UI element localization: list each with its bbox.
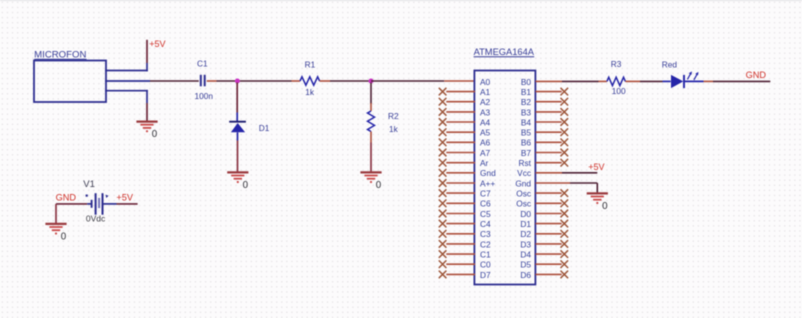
U1 right pin D2 no-connect x (row 15): [561, 230, 569, 238]
svg-text:0: 0: [376, 180, 382, 191]
U1 right pin B7 no-connect x (row 7): [561, 149, 569, 157]
U1 left pin A1 no-connect x: [439, 88, 447, 96]
U1 right pin D2 stub (row 15): [536, 233, 562, 235]
U1 right pin D6 stub (row 19): [536, 273, 562, 275]
wire R2 to ground: [370, 143, 372, 172]
wire GND down to ground: [55, 204, 57, 223]
microphone MICROFON box: [34, 50, 106, 102]
svg-text:V1: V1: [83, 179, 95, 190]
svg-text:1k: 1k: [389, 124, 399, 134]
svg-text:0: 0: [152, 129, 158, 140]
wire node B to U1 pin A0: [371, 80, 444, 82]
U1 left pin D7 no-connect x: [439, 271, 447, 279]
ground 0 (U1): [587, 193, 608, 212]
wire battery plus to +5V: [117, 203, 138, 205]
U1 left pin A1 stub: [446, 91, 475, 93]
svg-text:A0: A0: [480, 77, 491, 87]
wire LED to GND label: [713, 80, 770, 82]
ground 0 (R2): [360, 172, 381, 191]
svg-text:B3: B3: [521, 107, 532, 117]
svg-text:D4: D4: [520, 250, 531, 260]
resistor R2: [368, 111, 375, 132]
svg-text:B7: B7: [521, 148, 532, 158]
svg-text:A5: A5: [480, 128, 491, 138]
svg-text:100n: 100n: [195, 91, 214, 101]
U1 pin B0 stub: [536, 80, 563, 82]
svg-text:D0: D0: [520, 209, 531, 219]
U1 Gnd pin stub: [536, 182, 571, 184]
U1 right pin D6 no-connect x (row 19): [561, 271, 569, 279]
U1 left pin Ar no-connect x: [439, 159, 447, 167]
pin stub after LED: [704, 80, 714, 82]
U1 left pin C7 stub: [446, 192, 475, 194]
U1 right pin D3 stub (row 16): [536, 243, 562, 245]
microphone pin 3 corner: [146, 90, 148, 103]
U1 left pin A4 no-connect x: [439, 118, 447, 126]
U1 left pin C3 no-connect x: [439, 230, 447, 238]
capacitor C1: [201, 75, 205, 87]
U1 right pin B4 no-connect x (row 4): [561, 118, 569, 126]
svg-text:GND: GND: [56, 192, 77, 202]
U1 right pin B3 stub (row 3): [536, 111, 562, 113]
svg-text:0: 0: [243, 180, 249, 191]
U1 right pin D0 stub (row 13): [536, 213, 562, 215]
svg-text:Rst: Rst: [519, 158, 532, 168]
wire node B down to R2: [370, 83, 372, 105]
svg-text:Vcc: Vcc: [517, 168, 531, 178]
svg-text:Osc: Osc: [516, 189, 531, 199]
U1 right pin B7 stub (row 7): [536, 152, 562, 154]
svg-text:D1: D1: [259, 123, 270, 133]
wire GND corner to battery minus: [56, 203, 87, 205]
svg-text:R3: R3: [611, 59, 622, 69]
svg-text:+5V: +5V: [149, 39, 165, 49]
svg-text:B0: B0: [521, 77, 532, 87]
U1 left pin A7 stub: [446, 152, 475, 154]
svg-text:0: 0: [602, 201, 608, 212]
microphone pin 1 corner: [146, 63, 148, 71]
U1 left pin A2 no-connect x: [439, 98, 447, 106]
U1 left pin A5 stub: [446, 131, 475, 133]
U1 left pin C4 no-connect x: [439, 220, 447, 228]
U1 right pin Rst no-connect x (row 8): [561, 159, 569, 167]
pin stub R3 right: [625, 80, 640, 82]
junction node B: [369, 79, 374, 84]
U1 left pin C6 stub: [446, 202, 475, 204]
pin stub R2 bottom: [370, 132, 372, 143]
svg-text:C7: C7: [480, 189, 491, 199]
U1 right pin B5 no-connect x (row 5): [561, 128, 569, 136]
svg-text:C4: C4: [480, 219, 491, 229]
U1 left pin C0 no-connect x: [439, 260, 447, 268]
svg-text:A2: A2: [480, 97, 491, 107]
U1 left pin A7 no-connect x: [439, 149, 447, 157]
svg-text:D1: D1: [520, 219, 531, 229]
svg-text:R1: R1: [305, 60, 316, 70]
U1 right pin D0 no-connect x (row 13): [561, 210, 569, 218]
U1 left pin A6 no-connect x: [439, 139, 447, 147]
U1 left pin C5 no-connect x: [439, 210, 447, 218]
U1 left pin C0 stub: [446, 263, 475, 265]
svg-text:C1: C1: [480, 250, 491, 260]
wire +5V riser: [146, 40, 148, 63]
svg-text:Gnd: Gnd: [515, 178, 531, 188]
microphone pin 1 (to +5V): [105, 70, 148, 72]
wire Gnd down to ground: [596, 183, 598, 193]
U1 right pin D5 no-connect x (row 18): [561, 260, 569, 268]
svg-text:D7: D7: [480, 270, 491, 280]
pin stub A0: [444, 80, 475, 82]
U1 left pin A3 stub: [446, 111, 475, 113]
svg-text:+5V: +5V: [116, 192, 133, 202]
wire R3 to LED: [640, 80, 663, 82]
svg-text:B6: B6: [521, 138, 532, 148]
U1 right pin B5 stub (row 5): [536, 131, 562, 133]
U1 right pin B1 stub (row 1): [536, 91, 562, 93]
svg-text:GND: GND: [746, 70, 767, 80]
svg-text:B4: B4: [521, 117, 532, 127]
svg-text:Gnd: Gnd: [480, 168, 496, 178]
U1 Vcc pin stub: [536, 172, 563, 174]
svg-text:0Vdc: 0Vdc: [86, 214, 106, 224]
svg-text:Red: Red: [662, 60, 678, 70]
svg-text:1k: 1k: [305, 87, 315, 97]
U1 left pin C1 stub: [446, 253, 475, 255]
U1 left pin C6 no-connect x: [439, 200, 447, 208]
U1 right pin D1 stub (row 14): [536, 223, 562, 225]
svg-text:A1: A1: [480, 87, 491, 97]
LED cathode lead: [685, 80, 704, 82]
U1 left pin C1 no-connect x: [439, 250, 447, 258]
U1 right pin D3 no-connect x (row 16): [561, 240, 569, 248]
U1 right pin Osc stub (row 12): [536, 202, 562, 204]
svg-text:ATMEGA164A: ATMEGA164A: [474, 47, 535, 57]
U1 left pin A2 stub: [446, 101, 475, 103]
U1 right pin D1 no-connect x (row 14): [561, 220, 569, 228]
svg-text:A++: A++: [480, 178, 495, 188]
U1 right pin B2 no-connect x (row 2): [561, 98, 569, 106]
svg-text:D3: D3: [520, 239, 531, 249]
U1 left pin A4 stub: [446, 121, 475, 123]
U1 right pin Osc stub (row 11): [536, 192, 562, 194]
wire node A down to D1: [236, 83, 238, 113]
svg-text:D5: D5: [520, 260, 531, 270]
pin stub R1 right: [320, 80, 330, 82]
svg-text:B5: B5: [521, 128, 532, 138]
ground 0 (D1): [227, 172, 248, 191]
svg-text:C5: C5: [480, 209, 491, 219]
ground 0 (microphone): [136, 122, 157, 141]
wire D1 to ground: [237, 141, 239, 172]
svg-text:100: 100: [612, 86, 626, 96]
U1 left pin C7 no-connect x: [439, 189, 447, 197]
resistor R3: [607, 77, 626, 85]
resistor R1: [300, 77, 320, 85]
wire R1 to node B: [330, 80, 371, 82]
svg-text:C3: C3: [480, 229, 491, 239]
U1 right pin B3 no-connect x (row 3): [561, 108, 569, 116]
U1 right pin Osc no-connect x (row 12): [561, 200, 569, 208]
svg-text:B2: B2: [521, 97, 532, 107]
U1 right pin B4 stub (row 4): [536, 121, 562, 123]
svg-text:+5V: +5V: [588, 162, 604, 172]
svg-text:C6: C6: [480, 199, 491, 209]
svg-text:C2: C2: [480, 239, 491, 249]
U1 right pin Osc no-connect x (row 11): [561, 189, 569, 197]
U1 left pin Ar stub: [446, 162, 475, 164]
wire node A to R1: [240, 80, 292, 82]
wire C1 to node A: [217, 80, 236, 82]
U1 left pin Gnd no-connect x: [439, 169, 447, 177]
U1 right pin D5 stub (row 18): [536, 263, 562, 265]
U1 right pin Rst stub (row 8): [536, 162, 562, 164]
svg-text:R2: R2: [388, 111, 399, 121]
diode D1: [229, 113, 246, 141]
svg-text:B1: B1: [521, 87, 532, 97]
pin stub C1 right: [207, 80, 217, 82]
svg-text:0: 0: [61, 232, 67, 243]
LED D2 Red anode lead: [663, 80, 671, 82]
LED D2 Red: [671, 75, 684, 88]
wire Gnd right: [570, 182, 597, 184]
LED emission arrows: [687, 71, 698, 80]
U1 left pin A3 no-connect x: [439, 108, 447, 116]
U1 left pin Gnd stub: [446, 172, 475, 174]
U1 left pin A++ stub: [446, 182, 475, 184]
IC U1 ATMEGA164A box: [474, 47, 536, 285]
svg-text:D2: D2: [520, 229, 531, 239]
svg-text:C0: C0: [480, 260, 491, 270]
U1 left pin C2 no-connect x: [439, 240, 447, 248]
U1 right pin B6 stub (row 6): [536, 141, 562, 143]
svg-text:A4: A4: [480, 117, 491, 127]
pin stub R3 left: [599, 80, 607, 82]
svg-text:A3: A3: [480, 107, 491, 117]
U1 right pin B1 no-connect x (row 1): [561, 88, 569, 96]
U1 left pin A++ no-connect x: [439, 179, 447, 187]
U1 left pin D7 stub: [446, 273, 475, 275]
svg-text:D6: D6: [520, 270, 531, 280]
U1 left pin A5 no-connect x: [439, 128, 447, 136]
microphone pin 3 (to ground): [105, 90, 148, 92]
U1 right pin D4 no-connect x (row 17): [561, 250, 569, 258]
U1 right pin B6 no-connect x (row 6): [561, 139, 569, 147]
U1 left pin C5 stub: [446, 213, 475, 215]
svg-text:A6: A6: [480, 138, 491, 148]
wire B0 to R3: [562, 80, 599, 82]
svg-text:A7: A7: [480, 148, 491, 158]
battery V1 symbol: [86, 193, 117, 215]
pin stub R1 left: [292, 80, 301, 82]
junction node A: [235, 79, 240, 84]
U1 right pin B2 stub (row 2): [536, 101, 562, 103]
svg-text:C1: C1: [197, 58, 208, 68]
wire Vcc to +5V: [562, 172, 597, 174]
U1 left pin C4 stub: [446, 223, 475, 225]
wire microphone to C1: [150, 80, 199, 82]
U1 left pin A6 stub: [446, 141, 475, 143]
U1 left pin C3 stub: [446, 233, 475, 235]
svg-text:Ar: Ar: [480, 158, 489, 168]
wire microphone pin3 down to ground: [146, 103, 148, 121]
microphone pin 2 (signal out): [105, 80, 150, 82]
U1 right pin D4 stub (row 17): [536, 253, 562, 255]
pin stub R2 top: [370, 103, 372, 111]
U1 left pin C2 stub: [446, 243, 475, 245]
svg-text:Osc: Osc: [516, 199, 531, 209]
ground 0 (V1): [45, 224, 66, 243]
